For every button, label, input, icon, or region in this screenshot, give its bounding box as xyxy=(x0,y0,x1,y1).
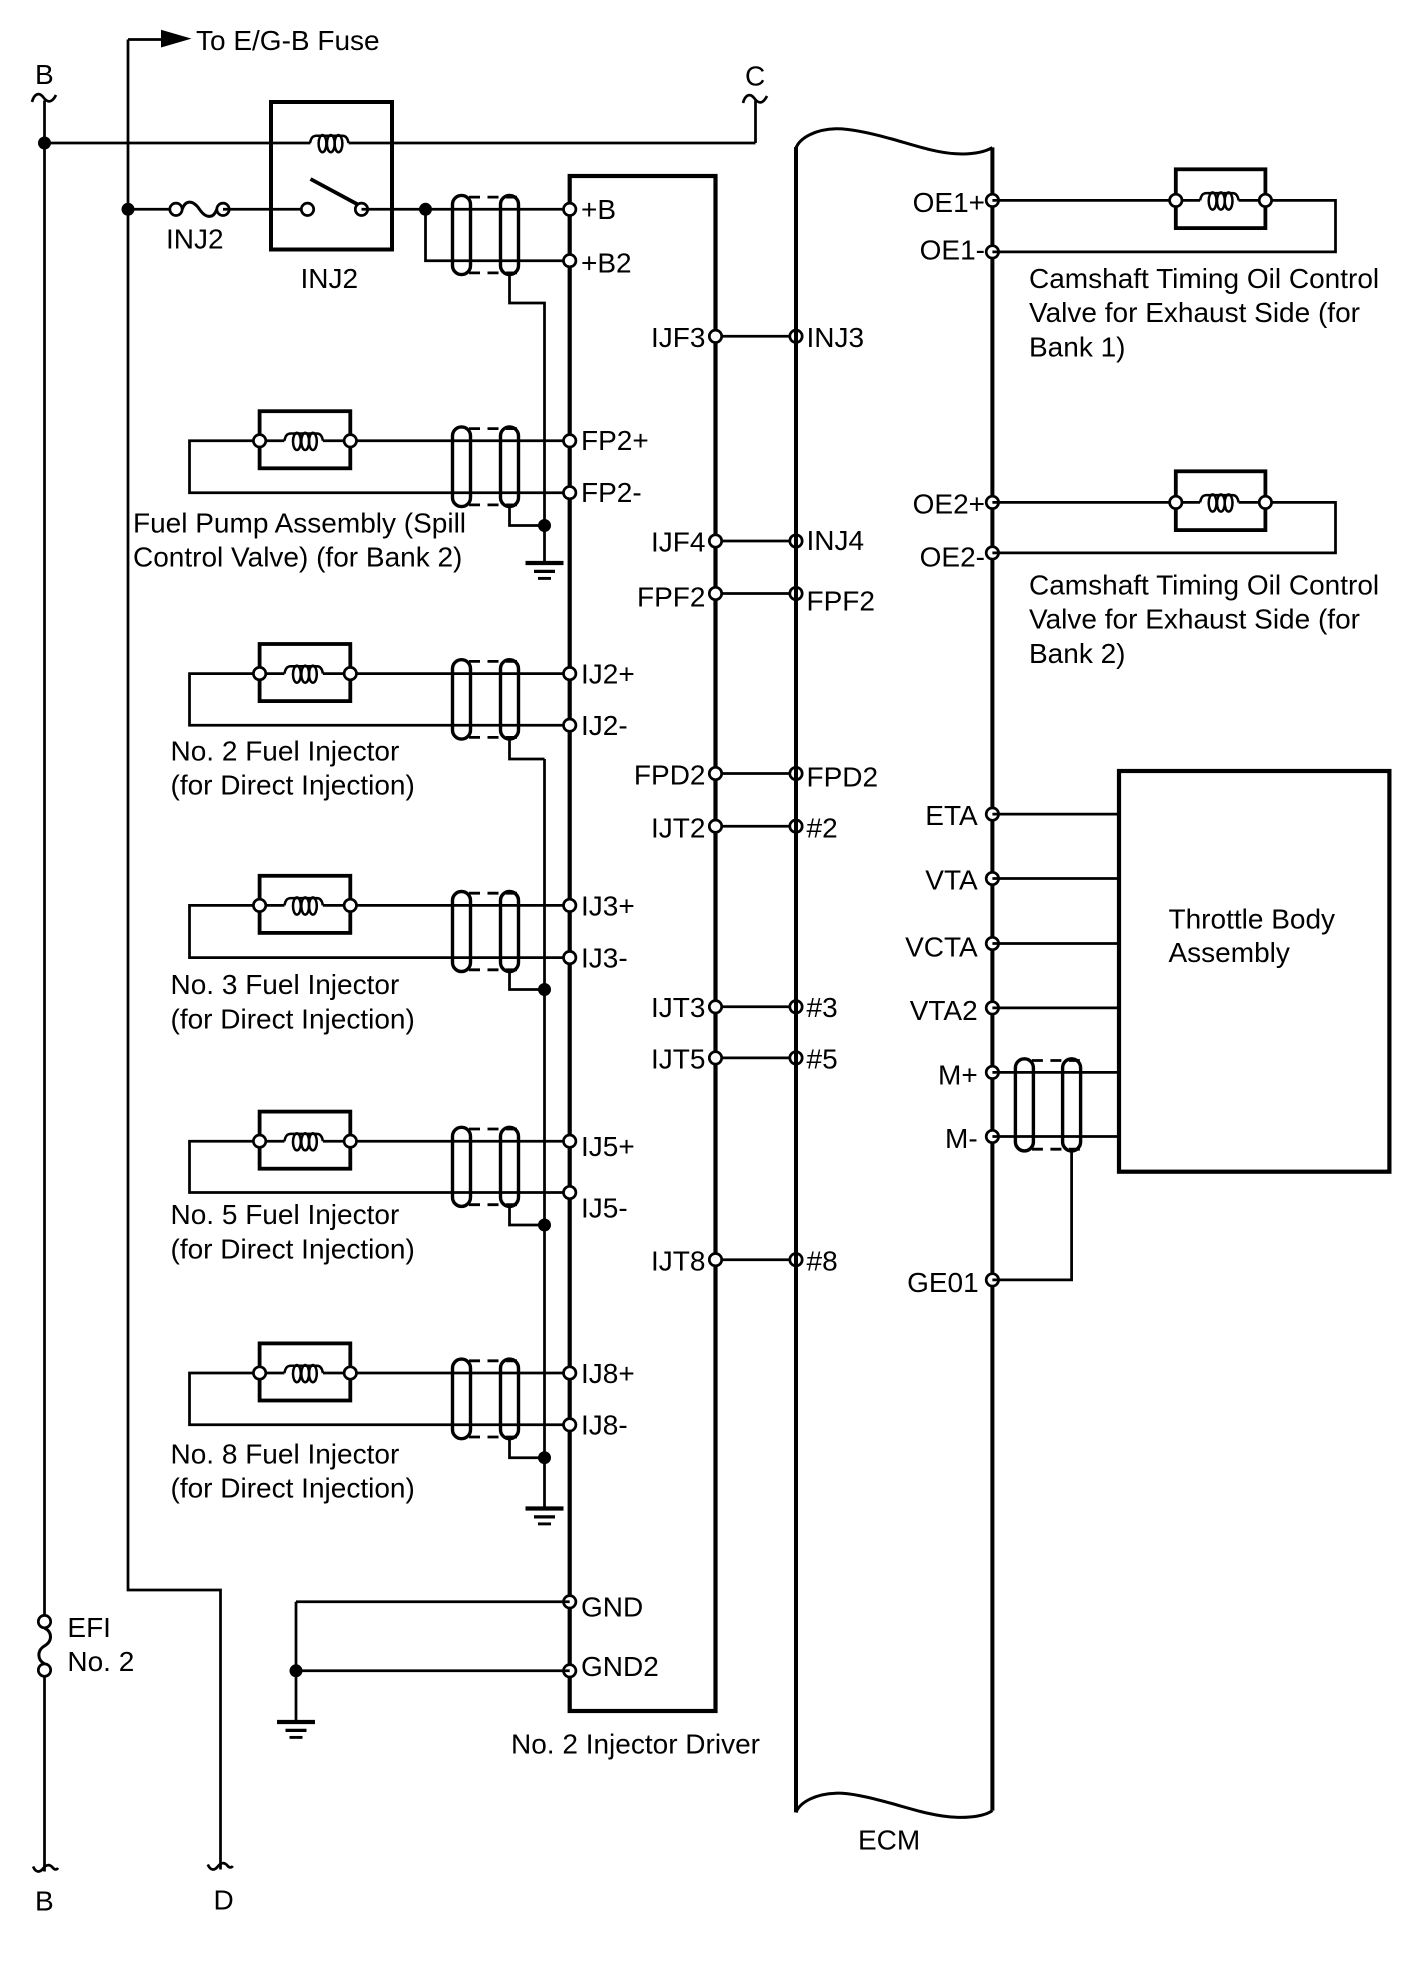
svg-text:Valve for Exhaust Side (for: Valve for Exhaust Side (for xyxy=(1029,604,1360,635)
ECM pin INJ4 xyxy=(790,525,864,556)
wire: FPD2 to FPD2 xyxy=(716,772,797,775)
svg-text:#2: #2 xyxy=(807,812,838,843)
svg-text:INJ4: INJ4 xyxy=(807,525,865,556)
svg-text:M+: M+ xyxy=(938,1059,978,1090)
fuse EFI label xyxy=(67,1612,134,1677)
No. 3 fuel injector coil xyxy=(284,897,323,914)
svg-text:+B: +B xyxy=(581,194,616,225)
junction: IJ3 drain joins bus xyxy=(538,983,551,996)
wire: drain to ground xyxy=(543,526,546,564)
wire: B bus below fuse xyxy=(43,1677,46,1871)
driver pin FPD2 xyxy=(634,760,722,791)
svg-text:IJ8-: IJ8- xyxy=(581,1410,628,1441)
ground (shield drain, upper) xyxy=(526,563,564,578)
svg-text:No. 5 Fuel Injector: No. 5 Fuel Injector xyxy=(171,1199,400,1230)
svg-text:IJ3+: IJ3+ xyxy=(581,890,635,921)
svg-text:IJF4: IJF4 xyxy=(651,527,705,558)
shielded pair for IJ8 xyxy=(453,1359,520,1439)
ECM bottom torn edge xyxy=(796,1793,992,1817)
wire: IJ5- return loop xyxy=(190,1141,570,1192)
ECM pin M- xyxy=(945,1123,999,1154)
svg-text:C: C xyxy=(745,61,765,92)
wire: IJT2 to #2 xyxy=(716,825,797,828)
relay INJ2 coil xyxy=(310,135,349,152)
svg-text:Bank 1): Bank 1) xyxy=(1029,331,1126,362)
node B (bottom) label xyxy=(35,1886,54,1917)
wire: IJT3 to #3 xyxy=(716,1005,797,1008)
wire: IJ5+ from injector to driver xyxy=(350,1140,569,1143)
wire: FPF2 to FPF2 xyxy=(716,592,797,595)
ECM pin GE01 xyxy=(907,1267,999,1298)
No. 2 fuel injector label xyxy=(171,735,415,800)
relay INJ2 label xyxy=(301,263,359,294)
svg-text:IJ3-: IJ3- xyxy=(581,943,628,974)
svg-text:Camshaft Timing Oil Control: Camshaft Timing Oil Control xyxy=(1029,570,1379,601)
driver pin IJ3- xyxy=(564,943,628,974)
svg-text:IJF3: IJF3 xyxy=(651,322,705,353)
shielded pair for IJ3 xyxy=(453,892,520,972)
driver pin IJT8 xyxy=(651,1246,722,1277)
wire: ECM to throttle body at y=814.1 xyxy=(992,813,1119,816)
svg-text:Camshaft Timing Oil Control: Camshaft Timing Oil Control xyxy=(1029,263,1379,294)
No. 5 fuel injector coil xyxy=(284,1133,323,1150)
wire: OE1- return loop xyxy=(992,200,1335,252)
wire: IJ3 shield drain xyxy=(510,972,545,990)
driver pin IJF4 xyxy=(651,527,722,558)
svg-text:ECM: ECM xyxy=(858,1825,920,1856)
wire: ECM to throttle body at y=1072.4 xyxy=(992,1071,1119,1074)
wire: GND to ground xyxy=(296,1600,570,1603)
junction: INJ2 fuse tap xyxy=(122,203,135,216)
fuse INJ2 label xyxy=(166,224,224,255)
svg-text:INJ2: INJ2 xyxy=(301,263,359,294)
driver pin IJF3 xyxy=(651,322,722,353)
junction: IJ5 drain joins bus xyxy=(538,1219,551,1232)
driver pin IJ2+ xyxy=(564,659,635,690)
ECM pin FPF2 xyxy=(790,586,875,617)
wire: IJ8- return loop xyxy=(190,1373,570,1425)
throttle body label xyxy=(1169,903,1336,968)
node B (top) label xyxy=(35,59,54,90)
svg-text:GND: GND xyxy=(581,1591,643,1622)
svg-text:EFI: EFI xyxy=(67,1612,111,1643)
throttle body assembly box xyxy=(1119,771,1389,1172)
driver pin GND2 xyxy=(564,1651,659,1682)
svg-text:OE1+: OE1+ xyxy=(913,187,985,218)
svg-text:FPD2: FPD2 xyxy=(634,760,706,791)
wire: GND2 to ground xyxy=(296,1669,570,1672)
driver pin IJ8+ xyxy=(564,1358,635,1389)
break symbol at node C xyxy=(743,95,767,103)
svg-text:FP2+: FP2+ xyxy=(581,425,649,456)
driver pin IJT5 xyxy=(651,1043,722,1074)
wire: OE2- return loop xyxy=(992,502,1335,553)
svg-text:To E/G-B Fuse: To E/G-B Fuse xyxy=(196,25,380,56)
svg-text:OE2-: OE2- xyxy=(920,541,985,572)
fuel pump terminals xyxy=(253,435,356,447)
svg-text:FPF2: FPF2 xyxy=(807,586,875,617)
wire: second vertical bus to node D xyxy=(128,40,221,1870)
No. 5 fuel injector coil stubs xyxy=(260,1140,351,1143)
svg-text:VCTA: VCTA xyxy=(905,931,978,962)
camshaft timing oil control valve 1 box xyxy=(1176,169,1266,228)
driver pin IJ3+ xyxy=(564,890,635,921)
camshaft timing oil control valve 2 box xyxy=(1176,471,1266,530)
svg-text:VTA: VTA xyxy=(925,865,978,896)
wire: IJF3 to INJ3 xyxy=(716,335,797,338)
svg-text:B: B xyxy=(35,59,54,90)
junction before shield xyxy=(419,203,432,216)
driver pin GND xyxy=(564,1591,644,1622)
break symbol at node D bottom xyxy=(208,1863,233,1869)
ECM pin #8 xyxy=(790,1246,838,1277)
wire: ECM to throttle body at y=1007.9 xyxy=(992,1007,1119,1010)
No. 5 fuel injector label xyxy=(171,1199,415,1264)
shielded pair for M+/M- xyxy=(1015,1059,1081,1151)
ECM top torn edge xyxy=(796,129,992,154)
camshaft valve 1 label xyxy=(1029,263,1379,362)
svg-text:D: D xyxy=(214,1885,234,1916)
junction: drains join xyxy=(538,519,551,532)
svg-text:ETA: ETA xyxy=(925,800,978,831)
camshaft valve 1 coil xyxy=(1200,192,1239,209)
svg-text:Assembly: Assembly xyxy=(1169,937,1290,968)
camshaft valve 2 coil xyxy=(1200,494,1239,511)
No. 8 fuel injector label xyxy=(171,1438,415,1503)
svg-text:INJ2: INJ2 xyxy=(166,224,224,255)
ECM label xyxy=(858,1825,920,1856)
ground (driver GND) xyxy=(277,1722,315,1737)
svg-text:(for Direct Injection): (for Direct Injection) xyxy=(171,770,415,801)
ECM pin VTA xyxy=(925,865,998,896)
svg-text:IJ5-: IJ5- xyxy=(581,1192,628,1223)
wire: IJ2+ from injector to driver xyxy=(350,672,569,675)
svg-text:B: B xyxy=(35,1886,54,1917)
camshaft valve 2 coil stubs xyxy=(1176,501,1266,504)
wire: fuse to relay switch xyxy=(223,208,308,211)
driver pin IJT3 xyxy=(651,992,722,1023)
driver pin IJ2- xyxy=(564,710,628,741)
svg-text:M-: M- xyxy=(945,1123,978,1154)
wire: ground riser xyxy=(295,1602,298,1722)
shielded pair for IJ5 xyxy=(453,1127,520,1206)
svg-text:(for Direct Injection): (for Direct Injection) xyxy=(171,1233,415,1264)
No. 3 fuel injector terminals xyxy=(253,899,356,911)
wire: OE2+ to valve xyxy=(992,501,1175,504)
svg-text:No. 3 Fuel Injector: No. 3 Fuel Injector xyxy=(171,969,400,1000)
svg-text:INJ3: INJ3 xyxy=(807,322,865,353)
ECM pin OE1+ xyxy=(913,187,999,218)
arrow head xyxy=(161,30,192,48)
No. 8 fuel injector coil stubs xyxy=(260,1372,351,1375)
wire: IJF4 to INJ4 xyxy=(716,540,797,543)
fuel pump coil stubs xyxy=(260,439,351,442)
wire: ECM to throttle body at y=1136.5 xyxy=(992,1135,1119,1138)
No. 3 fuel injector box xyxy=(260,876,351,933)
relay INJ2 switch xyxy=(301,179,367,216)
svg-text:VTA2: VTA2 xyxy=(910,995,978,1026)
No. 3 fuel injector label xyxy=(171,969,415,1034)
camshaft valve 1 coil stubs xyxy=(1176,199,1266,202)
wire: IJ2- return loop xyxy=(190,674,570,726)
ECM pin FPD2 xyxy=(790,762,878,793)
label To E/G-B Fuse xyxy=(196,25,380,56)
ECM pin #2 xyxy=(790,812,838,843)
camshaft valve 1 terminals xyxy=(1170,194,1272,206)
ECM pin VCTA xyxy=(905,931,999,962)
wire: arrow shaft to E/G-B fuse xyxy=(128,38,166,41)
driver pin FP2- xyxy=(564,477,642,508)
wire: FP2- return loop xyxy=(190,441,570,493)
wire: tap to INJ2 fuse xyxy=(128,208,176,211)
junction on B bus at main feed xyxy=(38,137,51,150)
svg-text:OE2+: OE2+ xyxy=(913,488,985,519)
svg-text:No. 2 Fuel Injector: No. 2 Fuel Injector xyxy=(171,735,400,766)
shielded pair for IJ2 xyxy=(453,660,520,739)
ground (shield drain, lower) xyxy=(526,1509,564,1524)
wire: M shield drain to GE01 xyxy=(992,1151,1071,1280)
svg-text:IJ2-: IJ2- xyxy=(581,710,628,741)
svg-text:FPF2: FPF2 xyxy=(637,582,705,613)
driver pin FPF2 xyxy=(637,582,722,613)
svg-text:(for Direct Injection): (for Direct Injection) xyxy=(171,1003,415,1034)
svg-text:No. 8 Fuel Injector: No. 8 Fuel Injector xyxy=(171,1438,400,1469)
No. 2 fuel injector coil stubs xyxy=(260,672,351,675)
ECM pin ETA xyxy=(925,800,998,831)
shielded pair for FP2 xyxy=(453,427,520,507)
svg-text:IJT2: IJT2 xyxy=(651,812,705,843)
No. 8 fuel injector terminals xyxy=(253,1367,356,1379)
driver pin FP2+ xyxy=(564,425,649,456)
wire: main feed from B to relay coil xyxy=(45,142,311,145)
No. 2 fuel injector terminals xyxy=(253,667,356,679)
ECM pin OE1- xyxy=(920,234,999,265)
svg-text:(for Direct Injection): (for Direct Injection) xyxy=(171,1473,415,1504)
driver pin IJ5- xyxy=(564,1186,628,1223)
wire: FP2 shield drain xyxy=(510,507,545,526)
break symbol at node B top xyxy=(32,94,56,102)
fuse INJ2 (element) xyxy=(170,202,229,216)
relay INJ2 box xyxy=(271,102,392,250)
svg-text:FP2-: FP2- xyxy=(581,477,642,508)
svg-text:No. 2 Injector Driver: No. 2 Injector Driver xyxy=(511,1728,760,1759)
No. 2 fuel injector box xyxy=(260,644,351,701)
svg-text:No. 2: No. 2 xyxy=(67,1646,134,1677)
svg-text:Bank 2): Bank 2) xyxy=(1029,638,1126,669)
svg-text:Fuel Pump Assembly (Spill: Fuel Pump Assembly (Spill xyxy=(133,507,466,538)
wire: B vertical bus xyxy=(43,101,46,1615)
camshaft valve 2 terminals xyxy=(1170,496,1272,508)
wire: relay coil to C riser xyxy=(349,142,756,145)
wire: relay to +B pin xyxy=(362,208,570,211)
fuel pump label xyxy=(133,507,466,572)
ECM pin OE2- xyxy=(920,541,999,572)
ECM pin OE2+ xyxy=(913,488,999,519)
svg-text:Control Valve) (for Bank 2): Control Valve) (for Bank 2) xyxy=(133,542,462,573)
svg-text:FPD2: FPD2 xyxy=(807,762,879,793)
No. 8 fuel injector box xyxy=(260,1343,351,1400)
svg-text:Throttle Body: Throttle Body xyxy=(1169,903,1336,934)
wire: FP2+ from pump to driver xyxy=(350,439,569,442)
svg-text:IJT3: IJT3 xyxy=(651,992,705,1023)
ECM pin #5 xyxy=(790,1043,838,1074)
wire: IJ5 shield drain xyxy=(510,1206,545,1225)
driver pin +B xyxy=(564,194,617,225)
ECM pin INJ3 xyxy=(790,322,864,353)
wire: injector drain bus xyxy=(543,759,546,1509)
svg-text:#8: #8 xyxy=(807,1246,838,1277)
ECM right edge xyxy=(990,147,994,1810)
wire: IJ3+ from injector to driver xyxy=(350,904,569,907)
fuel pump assembly (spill control valve) box xyxy=(260,411,351,468)
No. 5 fuel injector box xyxy=(260,1112,351,1169)
camshaft valve 2 label xyxy=(1029,570,1379,669)
driver pin IJT2 xyxy=(651,812,722,843)
wire: OE1+ to valve xyxy=(992,199,1175,202)
driver pin IJ5+ xyxy=(564,1131,635,1162)
wire: ECM to throttle body at y=878.5 xyxy=(992,877,1119,880)
No. 2 injector driver box xyxy=(570,176,716,1711)
node D label xyxy=(214,1885,234,1916)
No. 5 fuel injector terminals xyxy=(253,1135,356,1147)
wire: IJ2 shield drain xyxy=(510,739,545,759)
svg-text:GND2: GND2 xyxy=(581,1651,659,1682)
svg-text:#5: #5 xyxy=(807,1043,838,1074)
svg-text:GE01: GE01 xyxy=(907,1267,979,1298)
junction: GND2 joins riser xyxy=(290,1664,303,1677)
wire: branch to +B2 xyxy=(426,209,570,260)
ECM pin #3 xyxy=(790,992,838,1023)
wire: IJ8 shield drain xyxy=(510,1439,545,1458)
wire: IJT8 to #8 xyxy=(716,1258,797,1261)
shielded pair for +B/+B2 xyxy=(453,195,520,274)
ECM pin VTA2 xyxy=(910,995,999,1026)
ECM pin M+ xyxy=(938,1059,999,1090)
svg-text:#3: #3 xyxy=(807,992,838,1023)
wire: IJT5 to #5 xyxy=(716,1057,797,1060)
svg-text:+B2: +B2 xyxy=(581,248,632,279)
wire: IJ3- return loop xyxy=(190,905,570,957)
No. 2 fuel injector coil xyxy=(284,666,323,683)
ECM left edge xyxy=(794,147,798,1812)
wire: IJ8+ from injector to driver xyxy=(350,1372,569,1375)
svg-text:IJ5+: IJ5+ xyxy=(581,1131,635,1162)
driver pin +B2 xyxy=(564,248,632,279)
wire: +B/+B2 shield drain to bus xyxy=(510,275,545,526)
No. 8 fuel injector coil xyxy=(284,1365,323,1382)
wire: ECM to throttle body at y=943.5 xyxy=(992,942,1119,945)
junction: IJ8 drain joins bus xyxy=(538,1451,551,1464)
break symbol at node B bottom xyxy=(33,1865,58,1871)
fuse EFI No. 2 xyxy=(38,1615,50,1676)
svg-text:IJ2+: IJ2+ xyxy=(581,659,635,690)
No. 3 fuel injector coil stubs xyxy=(260,904,351,907)
No. 2 injector driver label xyxy=(511,1728,760,1759)
svg-text:OE1-: OE1- xyxy=(920,234,985,265)
svg-text:IJT5: IJT5 xyxy=(651,1043,705,1074)
svg-text:IJ8+: IJ8+ xyxy=(581,1358,635,1389)
svg-text:Valve for Exhaust Side (for: Valve for Exhaust Side (for xyxy=(1029,297,1360,328)
wire: riser to node C xyxy=(754,101,757,144)
driver pin IJ8- xyxy=(564,1410,628,1441)
node C label xyxy=(745,61,765,92)
fuel pump solenoid coil xyxy=(284,433,323,450)
svg-text:IJT8: IJT8 xyxy=(651,1246,705,1277)
